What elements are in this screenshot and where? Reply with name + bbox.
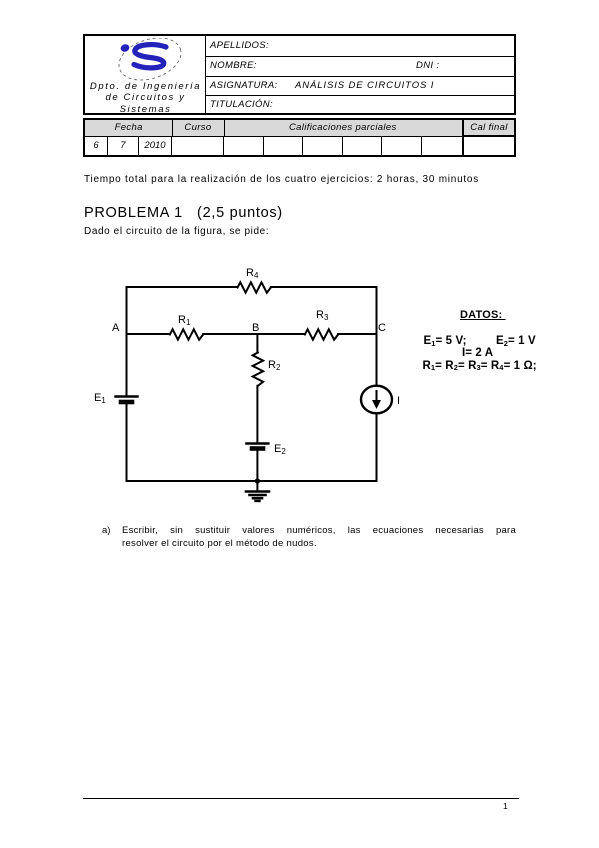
wire left vertical upper [126,287,128,396]
wire top left segment [127,286,238,288]
resistor R3 [305,329,338,339]
wire top right segment [271,286,377,288]
gray header row [85,120,514,137]
wire bottom [127,480,377,482]
battery E2 [246,442,268,444]
right rows [206,36,514,57]
current source I [361,386,392,414]
ground [246,490,269,493]
svg-text:A: A [112,322,120,334]
svg-text:R1: R1 [178,314,191,327]
datos block [460,309,506,321]
resistor R1 [170,329,203,339]
logo ICS [109,38,189,84]
current source arrowhead [372,400,381,409]
resistor R4 [238,282,271,292]
svg-text:E2: E2 [274,443,286,456]
battery E1 [116,395,138,397]
footer rule [83,798,519,799]
wire right vertical upper [376,287,378,385]
svg-text:C: C [378,322,386,334]
svg-text:E1: E1 [94,392,106,405]
wire E2 to bottom [256,449,258,482]
svg-text:B: B [252,322,259,334]
wire R1 to B [203,333,257,335]
item a) [102,525,110,536]
wire A to R1 [127,333,170,335]
intro line [84,174,479,185]
numbers row [85,137,514,155]
wire left vertical lower [126,402,128,481]
header upper table [83,34,516,115]
svg-text:R3: R3 [316,309,329,322]
svg-text:R4: R4 [246,267,259,280]
node dot at ground junction [255,478,260,483]
page number [503,801,508,811]
logo cell [85,36,206,113]
resistor R2 [253,353,263,386]
svg-text:I: I [397,395,400,407]
wire R3 to C [338,333,376,335]
header lower table [83,118,516,157]
wire to ground [256,481,258,491]
wire R2 to E2 [256,386,258,443]
svg-text:R2: R2 [268,359,281,372]
thick rule under Cal final [462,135,514,137]
problem title [84,205,283,221]
wire B to R3 [257,333,304,335]
wire right vertical lower [376,414,378,481]
wire B down to R2 [256,334,258,353]
dept name [85,81,206,116]
